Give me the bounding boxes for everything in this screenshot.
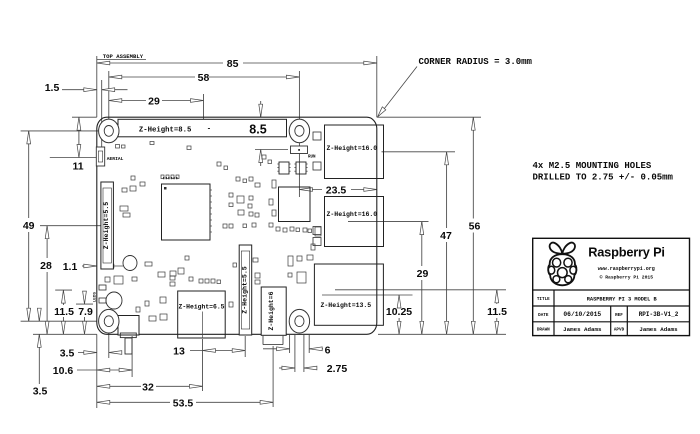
svg-text:3.5: 3.5 [60,348,75,360]
svg-text:RPI-3B-V1_2: RPI-3B-V1_2 [639,311,679,318]
svg-text:49: 49 [23,220,35,232]
svg-text:Z-Height=13.5: Z-Height=13.5 [321,302,372,309]
svg-text:Z-Height=8.5: Z-Height=8.5 [139,127,192,135]
svg-text:53.5: 53.5 [173,397,194,409]
svg-text:RUN: RUN [308,155,316,159]
svg-text:DRAWN: DRAWN [537,328,550,333]
svg-text:6: 6 [325,345,331,357]
svg-text:13: 13 [173,346,185,358]
svg-text:AERIAL: AERIAL [107,156,124,162]
svg-text:James Adams: James Adams [639,326,678,333]
svg-text:11.5: 11.5 [487,306,507,318]
svg-text:RASPBERRY PI 3 MODEL B: RASPBERRY PI 3 MODEL B [587,296,658,302]
svg-text:APVD: APVD [614,328,625,333]
svg-text:56: 56 [469,221,481,233]
svg-text:LEDS: LEDS [93,291,97,302]
svg-text:8.5: 8.5 [249,123,266,137]
svg-text:10.25: 10.25 [386,306,412,318]
svg-text:85: 85 [227,58,239,70]
svg-text:Z-Height=5.5: Z-Height=5.5 [103,202,110,250]
svg-text:REF: REF [615,313,623,318]
svg-text:47: 47 [440,230,452,242]
svg-text:© Raspberry Pi 2015: © Raspberry Pi 2015 [600,274,654,281]
svg-text:11: 11 [72,161,83,173]
svg-text:23.5: 23.5 [326,185,347,197]
svg-text:7.9: 7.9 [78,306,93,318]
svg-text:1.5: 1.5 [45,82,60,94]
svg-text:Z-Height=5.5: Z-Height=5.5 [242,266,249,314]
svg-text:1.1: 1.1 [63,261,78,273]
svg-text:28: 28 [40,260,52,272]
svg-text:James Adams: James Adams [563,326,602,333]
svg-text:11.5: 11.5 [54,306,74,318]
svg-text:www.raspberrypi.org: www.raspberrypi.org [598,266,655,272]
svg-text:Z-Height=16.0: Z-Height=16.0 [327,211,378,218]
svg-text:TOP ASSEMBLY: TOP ASSEMBLY [103,53,144,60]
svg-text:29: 29 [148,96,160,108]
svg-text:DRILLED TO 2.75 +/- 0.05mm: DRILLED TO 2.75 +/- 0.05mm [533,172,674,182]
svg-text:4x M2.5 MOUNTING HOLES: 4x M2.5 MOUNTING HOLES [533,161,652,171]
svg-text:3.5: 3.5 [33,386,48,398]
svg-text:10.6: 10.6 [53,365,74,377]
svg-text:-: - [207,126,211,134]
svg-text:CORNER RADIUS = 3.0mm: CORNER RADIUS = 3.0mm [419,57,533,67]
svg-text:DATE: DATE [538,313,549,318]
svg-text:Z-Height=6.5: Z-Height=6.5 [178,303,224,310]
svg-text:58: 58 [198,72,210,84]
svg-text:32: 32 [142,381,154,393]
svg-text:Z-Height=6: Z-Height=6 [268,291,275,330]
svg-text:Z-Height=16.0: Z-Height=16.0 [327,145,378,152]
svg-text:2.75: 2.75 [327,363,348,375]
svg-text:Raspberry Pi: Raspberry Pi [588,245,665,260]
svg-text:TITLE: TITLE [537,297,550,302]
svg-text:06/10/2015: 06/10/2015 [563,311,601,318]
svg-text:29: 29 [417,268,429,280]
